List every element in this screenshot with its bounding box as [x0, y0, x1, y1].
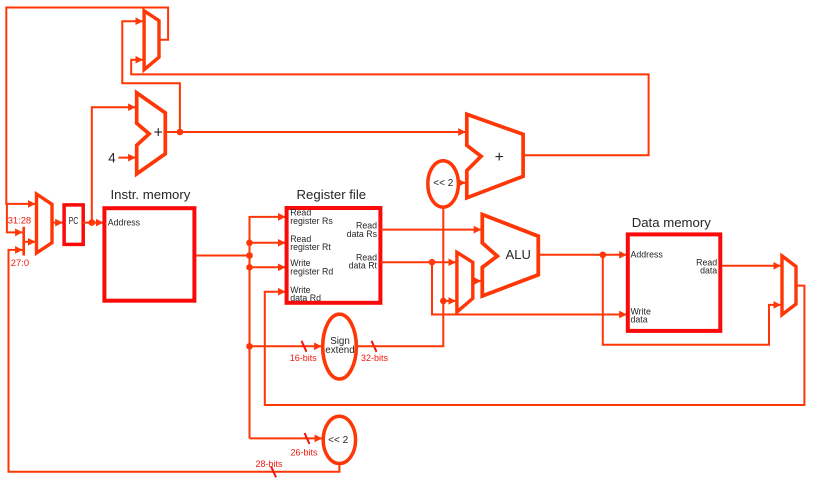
data memory box: [628, 234, 721, 331]
wire: bus branch to Write register Rd: [250, 266, 286, 268]
wire: bus branch to Read register Rt: [250, 242, 286, 244]
slash 32-bits: [372, 341, 377, 352]
svg-text:<< 2: << 2: [433, 178, 453, 189]
junction dot: PC+4 tap: [177, 129, 184, 136]
svg-text:register Rd: register Rd: [290, 267, 333, 277]
svg-text:data: data: [631, 315, 648, 325]
svg-text:data Rs: data Rs: [347, 229, 378, 239]
svg-text:27:0: 27:0: [11, 257, 29, 268]
svg-text:Instr. memory: Instr. memory: [111, 187, 191, 202]
wire: adder A1 output (PC+4) to branch adder A2: [165, 131, 466, 133]
adder A2 (branch target): [467, 114, 523, 198]
junction dot sign-extend branch: [440, 298, 447, 305]
wire: concat bar to jump mux M2 input 1: [24, 241, 36, 243]
slash 28-bits: [271, 466, 276, 477]
wire: write-back from mux M4 to register Write data Rd: [265, 286, 805, 405]
mux M2 (jump mux): [37, 194, 53, 253]
wire: PC+4 vertical tap into mux M1 input 0: [122, 21, 180, 132]
wire: immediate branch to ALUSrc mux input 1: [443, 300, 456, 302]
svg-text:ALU: ALU: [506, 247, 531, 262]
instruction memory box: [104, 208, 194, 301]
svg-text:Register file: Register file: [297, 187, 367, 202]
sign extend ellipse: [323, 314, 357, 379]
register file box: [287, 208, 381, 303]
wire: mux M1 output loop to jump mux input 0: [6, 8, 168, 204]
adder A1 (PC+4): [137, 93, 166, 174]
junction dot ALU result: [600, 252, 607, 259]
svg-text:<< 2: << 2: [328, 435, 348, 446]
mux M1 (PCSrc mux, top): [144, 11, 159, 70]
ALU: [482, 215, 538, 297]
svg-text:Data memory: Data memory: [632, 215, 712, 230]
slash 16-bits: [302, 341, 307, 352]
wire: branch adder output loop into mux M1 input 1: [131, 60, 648, 156]
register PC: [64, 205, 83, 245]
slash 26-bits: [305, 433, 310, 444]
wire: mux M3 output to ALU input 2: [473, 280, 482, 282]
wire: data memory Read data to mux M4 input 0: [722, 265, 781, 267]
svg-text:+: +: [154, 124, 163, 141]
svg-text:16-bits: 16-bits: [290, 353, 318, 363]
svg-text:register Rs: register Rs: [290, 216, 333, 226]
junction dot bus-Rt: [246, 240, 253, 247]
wire: bus branch to sign extend: [250, 345, 322, 347]
wire: ALU output to data memory Address: [538, 254, 627, 256]
wire: constant 4 to adder A1: [119, 157, 136, 159]
svg-text:extend: extend: [325, 345, 354, 356]
ALUSrc mux M3: [457, 252, 473, 312]
svg-text:register Rt: register Rt: [290, 242, 331, 252]
wire: jump 28-bit return from shift-left-2 to concat bar: [9, 250, 340, 472]
svg-text:data: data: [700, 266, 717, 276]
svg-text:data Rt: data Rt: [349, 261, 378, 271]
svg-text:28-bits: 28-bits: [256, 459, 284, 469]
junction dot bus-signextend: [246, 343, 253, 350]
junction dot: PC output tap: [89, 219, 96, 226]
junction dot bus-Rd: [246, 264, 253, 271]
svg-text:data Rd: data Rd: [290, 293, 321, 303]
svg-text:+: +: [495, 149, 504, 166]
svg-text:32-bits: 32-bits: [361, 353, 389, 363]
wire: bus branch to Read register Rs: [250, 216, 286, 218]
wire: Rt tap to data memory Write data: [432, 262, 627, 314]
wire: Read data Rs to ALU input 1: [380, 229, 481, 231]
shift left 2 ellipse (jump): [323, 416, 355, 463]
svg-text:31:28: 31:28: [8, 215, 31, 226]
svg-text:4: 4: [108, 150, 116, 165]
wire: PC output to instruction memory address: [82, 222, 103, 224]
wire: shift left 2 to adder A2 input 1: [458, 182, 465, 184]
junction dot Rt tap: [429, 259, 436, 266]
wire: bus bottom to shift-left-2: [250, 437, 323, 439]
svg-text:26-bits: 26-bits: [291, 448, 319, 458]
wire: PC tap up to adder A1 input: [92, 107, 136, 222]
concat bar node: [22, 227, 25, 256]
wire: mux M2 output to PC: [52, 222, 63, 224]
svg-text:Address: Address: [108, 218, 141, 228]
wire: ALU result bypass to mux M4 input 1: [603, 255, 781, 345]
shift left 2 ellipse (branch): [428, 161, 459, 207]
svg-text:PC: PC: [69, 216, 79, 227]
mux M4 (write-back mux): [782, 256, 796, 315]
wire: Read data Rt to ALUSrc mux input 0: [380, 261, 456, 263]
svg-text:Address: Address: [631, 249, 664, 259]
wire: instruction bus from instr memory: [196, 255, 249, 257]
wire: instruction bus vertical: [249, 216, 251, 438]
wire: sign extend output to shift-left-2 and ALUSrc mux: [356, 207, 443, 347]
wire: 31:28 tap from PC-source wire to concat bar: [7, 203, 23, 233]
junction dot bus-in: [246, 252, 253, 259]
